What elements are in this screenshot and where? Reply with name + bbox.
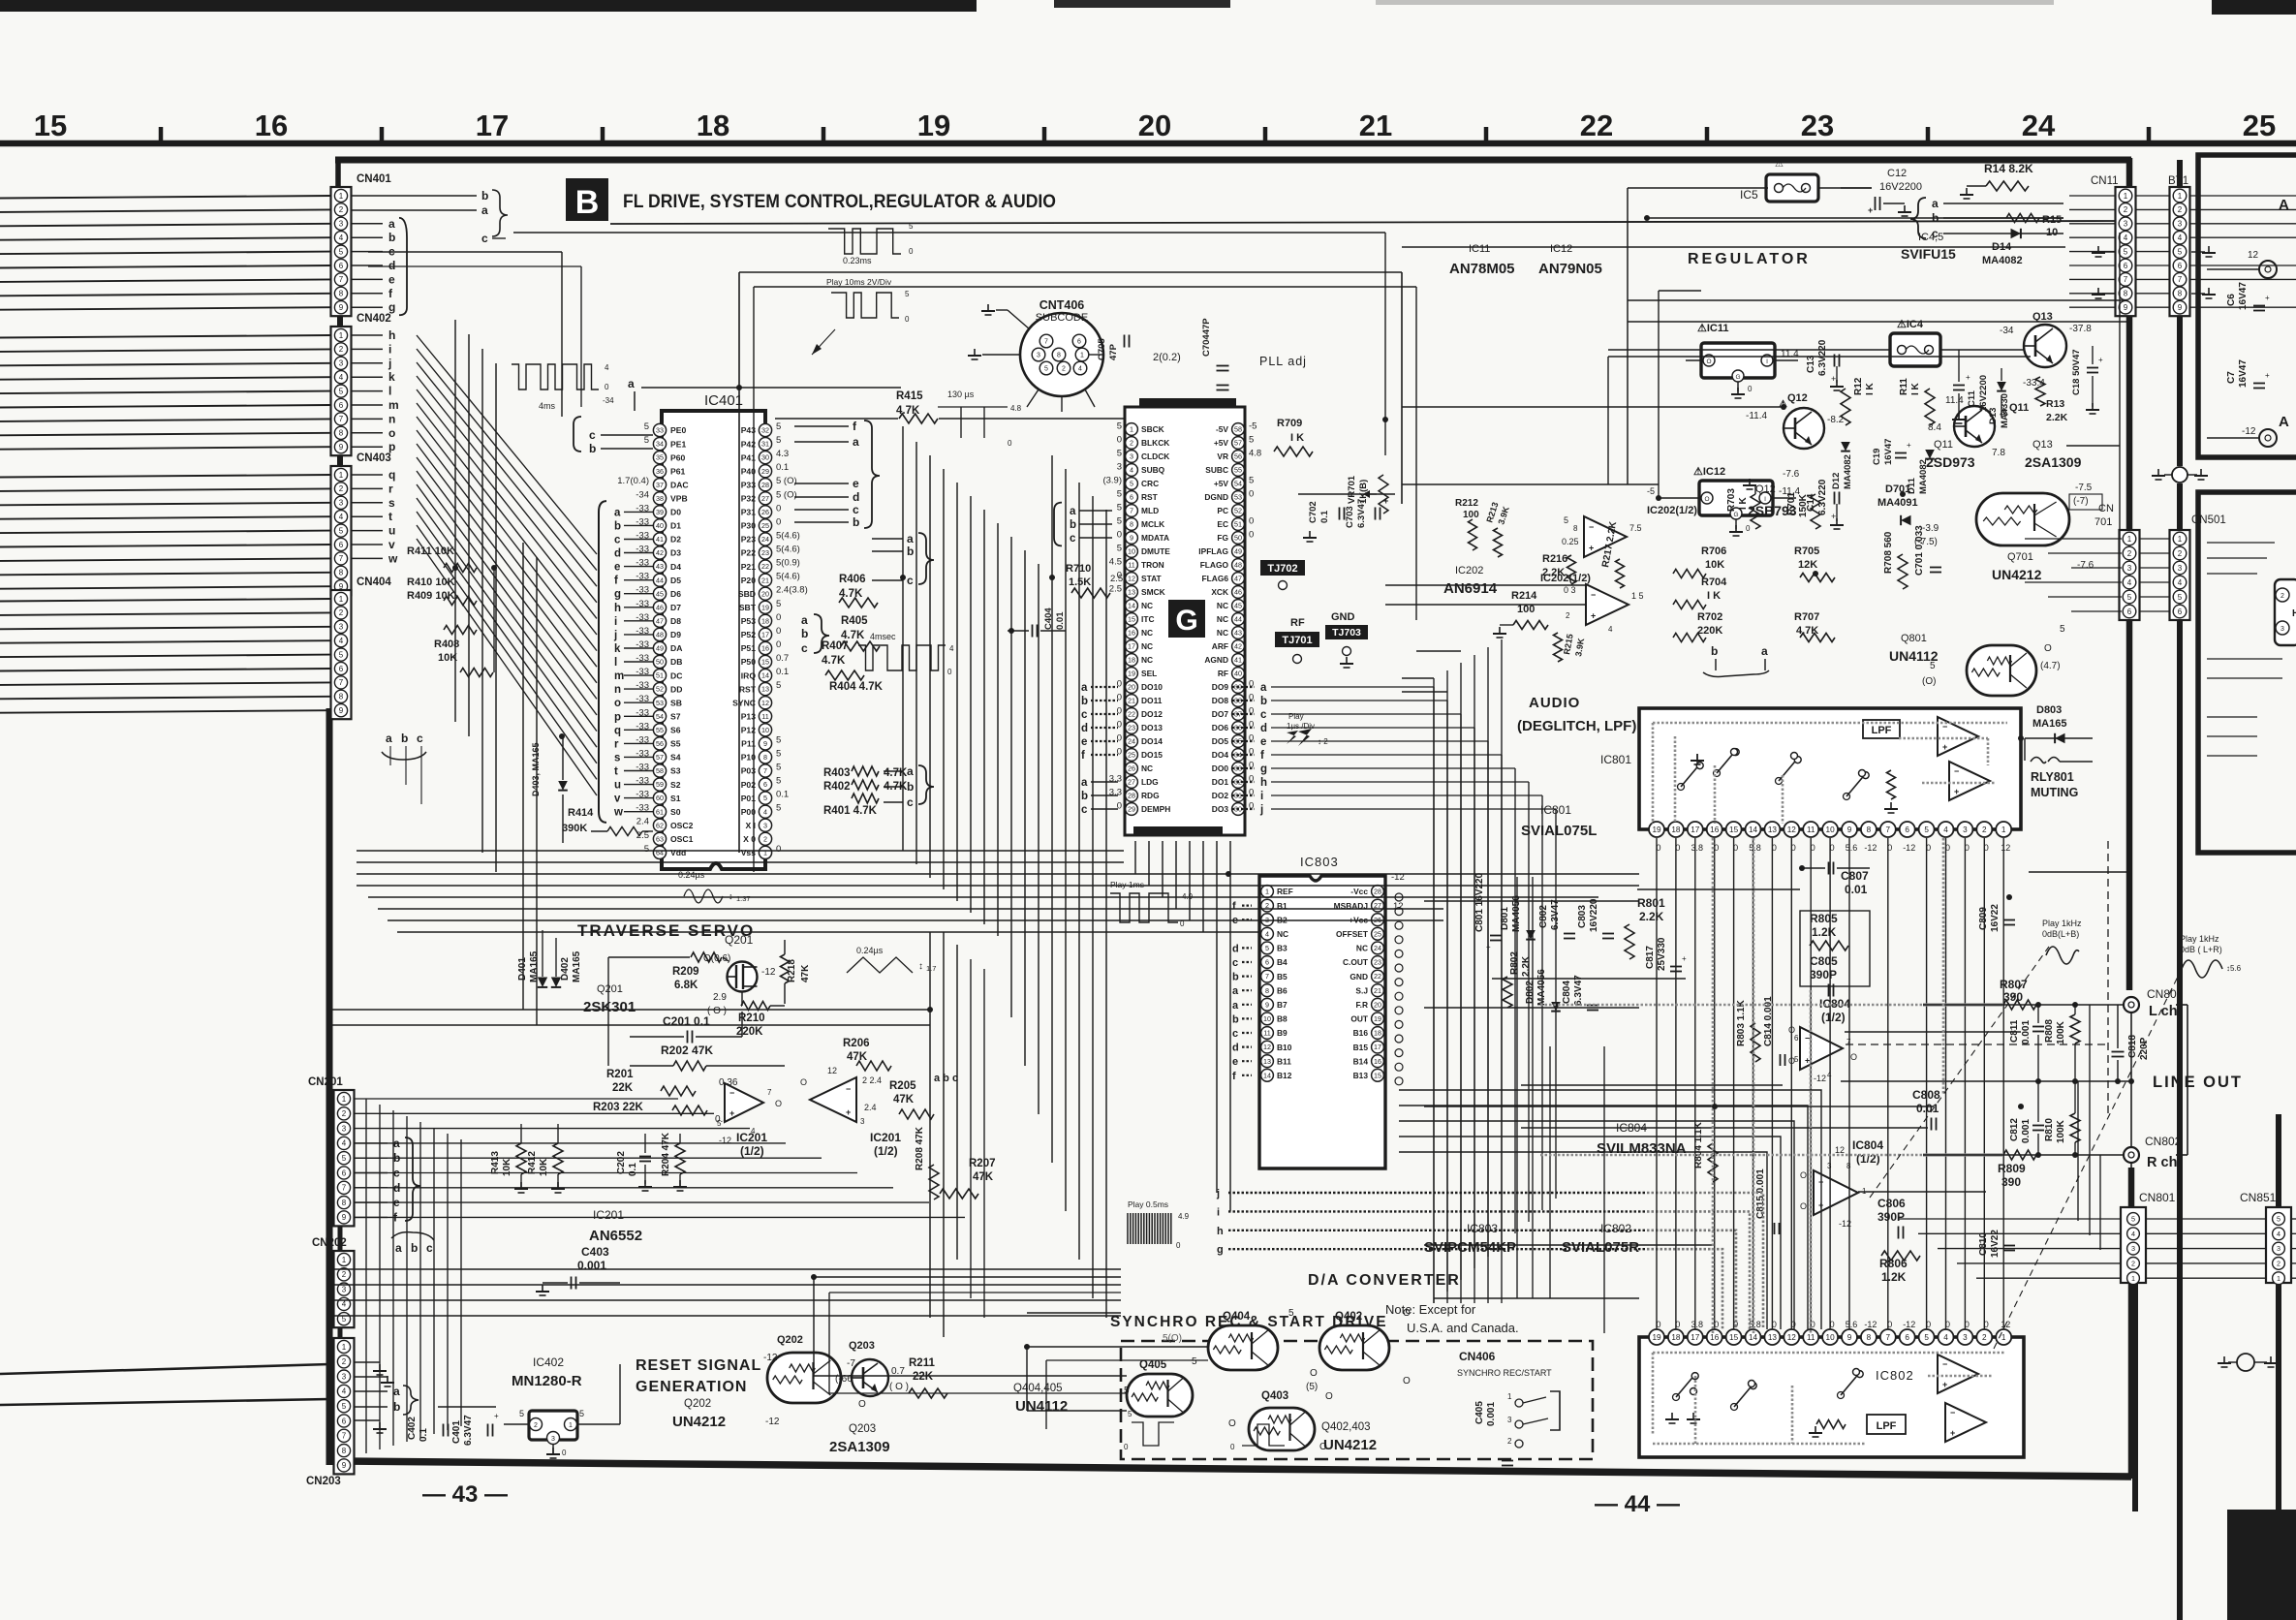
svg-text:CN404: CN404 bbox=[357, 576, 391, 588]
svg-text:5(4.6): 5(4.6) bbox=[776, 531, 800, 542]
svg-text:O: O bbox=[775, 1099, 782, 1108]
svg-text:S5: S5 bbox=[670, 739, 681, 749]
svg-text:10: 10 bbox=[1826, 1333, 1836, 1342]
svg-text:DO8: DO8 bbox=[1212, 696, 1229, 705]
labels Q402,403 UN4212 bbox=[1321, 1421, 1377, 1453]
svg-text:D402: D402 bbox=[560, 957, 571, 981]
svg-text:2: 2 bbox=[2280, 593, 2284, 600]
waveform play 1us div bbox=[1287, 712, 1328, 746]
svg-text:37: 37 bbox=[656, 481, 664, 489]
svg-text:32: 32 bbox=[761, 426, 769, 435]
svg-text:3: 3 bbox=[1037, 353, 1040, 359]
svg-text:NC: NC bbox=[1217, 614, 1228, 624]
svg-text:390P: 390P bbox=[1877, 1210, 1905, 1224]
svg-text:47K: 47K bbox=[847, 1051, 868, 1063]
svg-text:1.2K: 1.2K bbox=[1812, 925, 1837, 939]
svg-text:c: c bbox=[1260, 709, 1267, 721]
svg-text:6: 6 bbox=[2178, 607, 2183, 616]
svg-text:a: a bbox=[388, 217, 395, 231]
svg-text:D0: D0 bbox=[670, 508, 681, 517]
svg-text:51: 51 bbox=[656, 671, 664, 680]
ruler number 21 bbox=[1359, 109, 1392, 142]
capacitor C804 6.3V47 bbox=[1562, 975, 1598, 1011]
svg-text:e: e bbox=[1232, 1056, 1238, 1068]
ruler number 25 bbox=[2243, 109, 2276, 142]
svg-text:2.4(3.8): 2.4(3.8) bbox=[776, 585, 808, 596]
svg-text:S6: S6 bbox=[670, 726, 681, 735]
svg-text:9: 9 bbox=[339, 706, 344, 715]
svg-text:j: j bbox=[1259, 804, 1263, 816]
svg-text:5.6: 5.6 bbox=[1846, 1320, 1858, 1329]
svg-text:g: g bbox=[388, 300, 395, 314]
svg-text:0: 0 bbox=[1230, 1443, 1235, 1451]
svg-text:DO2: DO2 bbox=[1212, 791, 1229, 800]
svg-text:28: 28 bbox=[1374, 888, 1381, 896]
CN201 net letters a-f bbox=[355, 1137, 420, 1225]
CN203 net letters a b bbox=[355, 1362, 419, 1433]
svg-text:6.3V220: 6.3V220 bbox=[1817, 479, 1828, 515]
svg-text:2.5: 2.5 bbox=[1109, 584, 1122, 595]
svg-text:NC: NC bbox=[1141, 641, 1153, 651]
svg-text:+: + bbox=[2265, 371, 2270, 380]
svg-text:4msec: 4msec bbox=[870, 632, 896, 641]
svg-text:3: 3 bbox=[1130, 452, 1133, 461]
svg-text:2 2.4: 2 2.4 bbox=[862, 1075, 882, 1085]
svg-text:5: 5 bbox=[763, 794, 767, 802]
svg-text:12: 12 bbox=[1128, 575, 1135, 583]
svg-text:D403, MA165: D403, MA165 bbox=[531, 742, 541, 796]
svg-text:5: 5 bbox=[1117, 421, 1122, 432]
svg-text:28: 28 bbox=[761, 481, 769, 489]
svg-text:4: 4 bbox=[763, 807, 767, 816]
resistors R411 R410 R409 R408 10K bbox=[407, 545, 494, 677]
reset IC402 block bbox=[504, 1364, 620, 1458]
diode D11 MA4082 bbox=[1907, 450, 1935, 494]
svg-text:6.3V220: 6.3V220 bbox=[1817, 339, 1828, 376]
svg-text:0: 0 bbox=[905, 315, 910, 324]
DSP right data net letters bbox=[1232, 682, 1267, 816]
svg-text:4: 4 bbox=[1943, 1333, 1948, 1342]
svg-text:1 5: 1 5 bbox=[1631, 591, 1644, 601]
IC803 lower net letters j i h g bbox=[1216, 1188, 1647, 1256]
svg-text:a: a bbox=[1081, 777, 1088, 789]
svg-text:5: 5 bbox=[339, 387, 344, 395]
capacitor C201 0.1 bbox=[630, 1012, 742, 1044]
svg-text:1: 1 bbox=[2131, 1274, 2135, 1283]
svg-text:22K: 22K bbox=[913, 1371, 934, 1383]
svg-text:3: 3 bbox=[339, 499, 344, 508]
svg-text:34: 34 bbox=[656, 440, 664, 449]
svg-text:b: b bbox=[411, 1241, 418, 1255]
svg-text:t: t bbox=[614, 766, 618, 778]
svg-text:R707: R707 bbox=[1794, 611, 1819, 623]
svg-text:U.S.A. and Canada.: U.S.A. and Canada. bbox=[1407, 1321, 1519, 1335]
svg-text:4: 4 bbox=[339, 373, 344, 382]
svg-text:R12: R12 bbox=[1853, 377, 1864, 395]
svg-text:+: + bbox=[846, 1107, 851, 1117]
svg-text:12: 12 bbox=[1787, 826, 1797, 834]
svg-text:5: 5 bbox=[1794, 1055, 1799, 1064]
svg-text:IC802: IC802 bbox=[1876, 1368, 1914, 1383]
svg-text:O: O bbox=[800, 1077, 807, 1087]
svg-text:18: 18 bbox=[1128, 656, 1135, 665]
svg-text:2: 2 bbox=[2124, 205, 2128, 214]
svg-text:g: g bbox=[1260, 763, 1267, 775]
svg-text:4: 4 bbox=[2131, 1230, 2135, 1238]
capacitor C815 0.001 bbox=[1755, 1168, 1780, 1234]
svg-text:7: 7 bbox=[339, 554, 344, 563]
waveform play 0.5ms burst bbox=[1128, 1199, 1190, 1250]
svg-text:-12: -12 bbox=[1903, 843, 1915, 853]
svg-text:8: 8 bbox=[763, 753, 767, 762]
resistor R405 4.7K bbox=[841, 615, 880, 651]
svg-text:2: 2 bbox=[2178, 205, 2183, 214]
svg-text:j: j bbox=[388, 357, 391, 370]
svg-text:1: 1 bbox=[339, 595, 344, 604]
connector CN11 bbox=[2091, 175, 2136, 316]
svg-text:8: 8 bbox=[1573, 524, 1578, 533]
svg-text:C202: C202 bbox=[616, 1151, 627, 1174]
svg-text:c: c bbox=[481, 232, 488, 245]
svg-text:-7.5: -7.5 bbox=[2075, 483, 2093, 493]
svg-text:R410 10K: R410 10K bbox=[407, 576, 455, 588]
svg-text:9: 9 bbox=[763, 739, 767, 748]
right bottom circle terminal bbox=[2218, 1354, 2278, 1371]
svg-text:27: 27 bbox=[1128, 778, 1135, 787]
right outer box B bbox=[2198, 492, 2296, 853]
svg-text:5: 5 bbox=[1265, 944, 1269, 952]
test point TJ702 bbox=[1260, 560, 1305, 590]
capacitor C18 50V47 bbox=[2071, 346, 2103, 414]
svg-text:0.01: 0.01 bbox=[1055, 611, 1066, 630]
scan artifact top-left black bar bbox=[0, 0, 977, 12]
svg-text:ITC: ITC bbox=[1141, 614, 1155, 624]
svg-text:0.25: 0.25 bbox=[1562, 537, 1579, 546]
svg-text:d: d bbox=[388, 259, 395, 272]
svg-text:9: 9 bbox=[339, 443, 344, 452]
svg-text:4ms: 4ms bbox=[539, 401, 556, 411]
resistor R805 1.2K bbox=[1800, 911, 1870, 986]
svg-text:0.24µs: 0.24µs bbox=[678, 870, 705, 880]
svg-text:R208 47K: R208 47K bbox=[915, 1126, 925, 1170]
capacitor C402 0.1 bbox=[407, 1417, 449, 1442]
svg-text:1: 1 bbox=[2001, 826, 2006, 834]
svg-text:19: 19 bbox=[1652, 1333, 1661, 1342]
svg-text:16V47: 16V47 bbox=[2238, 282, 2249, 310]
resistor R215 3.9K bbox=[1554, 633, 1587, 662]
scan artifact top-middle bar bbox=[1054, 0, 1230, 8]
svg-text:390P: 390P bbox=[1810, 968, 1837, 981]
svg-text:CN403: CN403 bbox=[357, 452, 391, 464]
svg-text:0.001: 0.001 bbox=[2021, 1020, 2032, 1044]
svg-text:1: 1 bbox=[2178, 535, 2183, 544]
svg-text:MA165: MA165 bbox=[572, 950, 582, 982]
svg-text:22: 22 bbox=[1374, 972, 1381, 981]
svg-text:d: d bbox=[1232, 943, 1239, 954]
svg-text:NC: NC bbox=[1217, 601, 1228, 610]
diode D801 MA4056 bbox=[1500, 895, 1536, 940]
svg-text:−: − bbox=[1805, 1034, 1810, 1044]
svg-text:5: 5 bbox=[644, 435, 649, 446]
net labels q-w at CN403 bbox=[352, 468, 398, 565]
op-amp IC804 1/2 lower bbox=[1800, 1138, 1883, 1229]
svg-text:6: 6 bbox=[339, 401, 344, 410]
svg-text:5: 5 bbox=[2124, 247, 2128, 256]
svg-text:C801 16V220: C801 16V220 bbox=[1474, 872, 1485, 932]
svg-text:GND: GND bbox=[1331, 611, 1355, 623]
svg-text:o: o bbox=[388, 426, 395, 440]
svg-text:R710: R710 bbox=[1066, 563, 1091, 575]
capacitor C404 0.01 bbox=[1008, 607, 1066, 638]
svg-text:R202 47K: R202 47K bbox=[661, 1044, 713, 1057]
svg-text:12: 12 bbox=[1787, 1333, 1797, 1342]
svg-text:16: 16 bbox=[1710, 826, 1720, 834]
relay RLY801 MUTING bbox=[2025, 738, 2093, 799]
svg-text:0.7: 0.7 bbox=[776, 653, 789, 664]
wire bus audio column left of IC801 bbox=[1402, 639, 1604, 1333]
svg-text:SVIAL075R: SVIAL075R bbox=[1562, 1239, 1639, 1256]
resistor R701 150K bbox=[1786, 492, 1820, 529]
page number 43 bbox=[422, 1481, 508, 1508]
svg-text:b: b bbox=[1232, 1013, 1239, 1025]
resistor R12 1K bbox=[1841, 377, 1876, 425]
resistor R206 47K bbox=[827, 1038, 891, 1075]
resistor R216 2.2K bbox=[1542, 553, 1576, 584]
resistor R13 2.2K bbox=[2023, 377, 2068, 423]
svg-text:a: a bbox=[1232, 985, 1239, 997]
svg-text:R809: R809 bbox=[1998, 1162, 2026, 1175]
svg-text:C805: C805 bbox=[1810, 954, 1838, 968]
wire bus IC401 left connections bbox=[368, 252, 581, 1025]
svg-text:59: 59 bbox=[656, 780, 664, 789]
svg-text:33: 33 bbox=[656, 426, 664, 435]
svg-text:4: 4 bbox=[2124, 234, 2128, 242]
svg-text:1: 1 bbox=[342, 1343, 347, 1352]
capacitor C806 390P bbox=[1877, 1197, 1906, 1239]
svg-text:3: 3 bbox=[1963, 1333, 1968, 1342]
svg-text:CN402: CN402 bbox=[357, 313, 391, 325]
svg-text:-7.6: -7.6 bbox=[1783, 469, 1800, 480]
svg-text:0: 0 bbox=[1249, 489, 1254, 500]
svg-text:r: r bbox=[388, 482, 393, 495]
resistor R402 4.7K bbox=[823, 780, 908, 793]
svg-text:47K: 47K bbox=[893, 1094, 915, 1106]
digital transistor Q403 bbox=[1228, 1390, 1333, 1452]
svg-text:0: 0 bbox=[776, 503, 781, 514]
op-amp IC202 1/2 upper bbox=[1562, 505, 1697, 557]
svg-text:IC5: IC5 bbox=[1740, 188, 1758, 202]
ruler number 17 bbox=[476, 109, 509, 142]
svg-text:11: 11 bbox=[761, 712, 768, 721]
capacitor C808 0.01 bbox=[1912, 1088, 1940, 1131]
svg-text:4: 4 bbox=[605, 363, 609, 372]
svg-text:5: 5 bbox=[2277, 1215, 2280, 1224]
svg-text:53: 53 bbox=[656, 699, 664, 707]
svg-text:RF: RF bbox=[1290, 617, 1305, 629]
svg-text:AGND: AGND bbox=[1204, 655, 1228, 665]
wires at IC401 top pins to nets c b bbox=[574, 377, 901, 455]
capacitor C13 6.3V220 bbox=[1806, 339, 1844, 390]
svg-text:(5): (5) bbox=[1306, 1382, 1318, 1392]
resistor R804 1.1K bbox=[1693, 1121, 1718, 1182]
svg-text:D803: D803 bbox=[2036, 704, 2062, 716]
svg-text:↕5.6: ↕5.6 bbox=[2226, 964, 2242, 973]
wire bus trunk below ICs bbox=[357, 851, 1639, 932]
svg-text:DO15: DO15 bbox=[1141, 750, 1163, 760]
svg-text:5: 5 bbox=[776, 680, 781, 691]
wire bus right connectors bbox=[1899, 196, 2296, 1278]
svg-text:12: 12 bbox=[1835, 1145, 1845, 1155]
svg-text:1: 1 bbox=[1130, 425, 1133, 434]
IC803 right pins 28-15 bbox=[1334, 872, 1405, 1085]
svg-text:0: 0 bbox=[1117, 530, 1122, 541]
svg-text:TRON: TRON bbox=[1141, 560, 1164, 570]
svg-text:CN851: CN851 bbox=[2240, 1191, 2277, 1204]
svg-text:2: 2 bbox=[339, 484, 344, 493]
svg-text:5: 5 bbox=[644, 844, 649, 855]
svg-text:O: O bbox=[1704, 496, 1709, 503]
svg-text:1.2K: 1.2K bbox=[1881, 1270, 1907, 1284]
svg-text:6.3V47: 6.3V47 bbox=[1356, 499, 1367, 528]
svg-text:+: + bbox=[1950, 1428, 1955, 1438]
svg-text:9: 9 bbox=[2178, 303, 2183, 312]
svg-text:I K: I K bbox=[1738, 496, 1749, 510]
svg-text:1: 1 bbox=[339, 331, 344, 340]
connector CNT406 SUBCODE bbox=[968, 298, 1103, 412]
svg-text:5: 5 bbox=[776, 763, 781, 773]
svg-text:16: 16 bbox=[255, 109, 288, 142]
svg-text:a: a bbox=[393, 1385, 400, 1398]
svg-text:O: O bbox=[1800, 1170, 1807, 1180]
right bottom black box bbox=[2227, 1510, 2296, 1620]
svg-text:40: 40 bbox=[1234, 670, 1242, 678]
svg-text:c: c bbox=[417, 732, 423, 745]
net letters a b c mid bbox=[872, 532, 934, 587]
IC802 pin row 19-1 bbox=[1649, 1320, 2011, 1345]
capacitor C817 25V330 bbox=[1645, 937, 1687, 971]
svg-text:7: 7 bbox=[2124, 275, 2128, 284]
svg-text:7: 7 bbox=[1886, 826, 1891, 834]
svg-text:5: 5 bbox=[1130, 480, 1133, 488]
svg-text:b: b bbox=[401, 732, 408, 745]
svg-text:−: − bbox=[1589, 522, 1594, 532]
svg-text:56: 56 bbox=[1234, 452, 1242, 461]
capacitor C810 16V22 bbox=[1978, 1230, 2015, 1258]
svg-text:a: a bbox=[853, 435, 859, 449]
svg-text:SYNCHRO REC & START DRIVE: SYNCHRO REC & START DRIVE bbox=[1110, 1314, 1388, 1330]
svg-text:220P: 220P bbox=[2139, 1037, 2150, 1060]
svg-text:v: v bbox=[388, 538, 395, 551]
svg-text:6: 6 bbox=[339, 262, 344, 270]
svg-text:14: 14 bbox=[1128, 602, 1135, 610]
svg-text:6: 6 bbox=[2124, 262, 2128, 270]
svg-text:2: 2 bbox=[1062, 366, 1066, 373]
ruler tick bbox=[380, 127, 385, 145]
svg-text:50: 50 bbox=[1234, 534, 1242, 543]
svg-text:I K: I K bbox=[1290, 432, 1304, 444]
svg-text:g: g bbox=[1217, 1244, 1224, 1256]
resistor R213 3.9K bbox=[1484, 501, 1511, 557]
svg-text:0: 0 bbox=[1008, 439, 1012, 448]
svg-text:+: + bbox=[1942, 742, 1947, 752]
svg-text:54: 54 bbox=[1234, 480, 1242, 488]
connector BT1 bbox=[2168, 175, 2190, 316]
scan artifact faint top strip bbox=[1376, 0, 2054, 5]
svg-text:0.1: 0.1 bbox=[1319, 510, 1330, 523]
svg-text:+: + bbox=[1383, 496, 1388, 506]
svg-text:5: 5 bbox=[776, 599, 781, 609]
svg-text:7: 7 bbox=[1265, 972, 1269, 981]
digital transistor Q202 bbox=[763, 1334, 855, 1427]
svg-text:3: 3 bbox=[2127, 564, 2132, 573]
svg-text:5: 5 bbox=[579, 1409, 584, 1418]
svg-text:OUT: OUT bbox=[1350, 1014, 1369, 1024]
svg-text:REF: REF bbox=[1277, 887, 1293, 896]
svg-text:CN201: CN201 bbox=[308, 1076, 343, 1088]
svg-text:(4.7): (4.7) bbox=[2040, 661, 2061, 671]
svg-text:R413: R413 bbox=[490, 1151, 501, 1174]
resistor R403 4.7K bbox=[823, 766, 908, 779]
svg-text:4: 4 bbox=[342, 1300, 347, 1309]
svg-text:45: 45 bbox=[656, 589, 664, 598]
svg-text:10: 10 bbox=[1128, 547, 1135, 556]
svg-text:2: 2 bbox=[339, 345, 344, 354]
svg-text:16: 16 bbox=[761, 644, 769, 653]
svg-text:IC201: IC201 bbox=[593, 1208, 624, 1222]
svg-text:SVIAL075L: SVIAL075L bbox=[1521, 823, 1597, 839]
svg-text:f: f bbox=[1081, 750, 1085, 762]
svg-text:R415: R415 bbox=[896, 390, 923, 402]
capacitor C814 0.001 bbox=[1763, 996, 1785, 1066]
svg-text:MLD: MLD bbox=[1141, 506, 1159, 515]
svg-text:5: 5 bbox=[1924, 826, 1929, 834]
svg-text:+: + bbox=[2098, 356, 2103, 364]
svg-text:(1/2): (1/2) bbox=[874, 1144, 898, 1158]
svg-text:+: + bbox=[1966, 373, 1970, 382]
resistor R202 47K bbox=[630, 1044, 785, 1071]
svg-text:25: 25 bbox=[2243, 109, 2276, 142]
svg-text:DO10: DO10 bbox=[1141, 682, 1163, 692]
svg-text:DA: DA bbox=[670, 643, 682, 653]
test point TJ703 GND bbox=[1325, 611, 1368, 668]
resistor R210 220K bbox=[736, 992, 785, 1038]
svg-text:4: 4 bbox=[342, 1139, 347, 1148]
capacitor C202 0.1 bbox=[616, 1134, 652, 1191]
svg-text:5: 5 bbox=[1117, 489, 1122, 500]
svg-text:5.8: 5.8 bbox=[1749, 843, 1761, 853]
svg-text:R207: R207 bbox=[969, 1158, 996, 1169]
resistor R809 390 bbox=[1998, 1150, 2036, 1189]
ground stubs at CN11 bbox=[2092, 246, 2115, 298]
svg-text:DO12: DO12 bbox=[1141, 709, 1163, 719]
svg-text:100K: 100K bbox=[2056, 1020, 2066, 1044]
svg-text:2: 2 bbox=[2178, 549, 2183, 558]
svg-text:C803: C803 bbox=[1577, 905, 1588, 928]
labels IC11 AN78M05 IC12 AN79N05 bbox=[1449, 243, 1602, 277]
svg-text:UN4212: UN4212 bbox=[1323, 1437, 1377, 1453]
svg-text:R407: R407 bbox=[822, 640, 849, 652]
svg-text:48: 48 bbox=[656, 631, 664, 639]
svg-text:CN802: CN802 bbox=[2145, 1135, 2182, 1148]
svg-text:R201: R201 bbox=[606, 1069, 634, 1080]
diodes D401 D402 MA165 bbox=[517, 930, 582, 987]
label IC804 SVILM833NA bbox=[1597, 1121, 1687, 1157]
svg-text:2.4: 2.4 bbox=[864, 1103, 877, 1112]
svg-text:a: a bbox=[614, 507, 621, 518]
svg-text:b: b bbox=[907, 780, 914, 794]
svg-text:5: 5 bbox=[1249, 476, 1254, 486]
svg-text:3.3: 3.3 bbox=[1109, 774, 1122, 785]
